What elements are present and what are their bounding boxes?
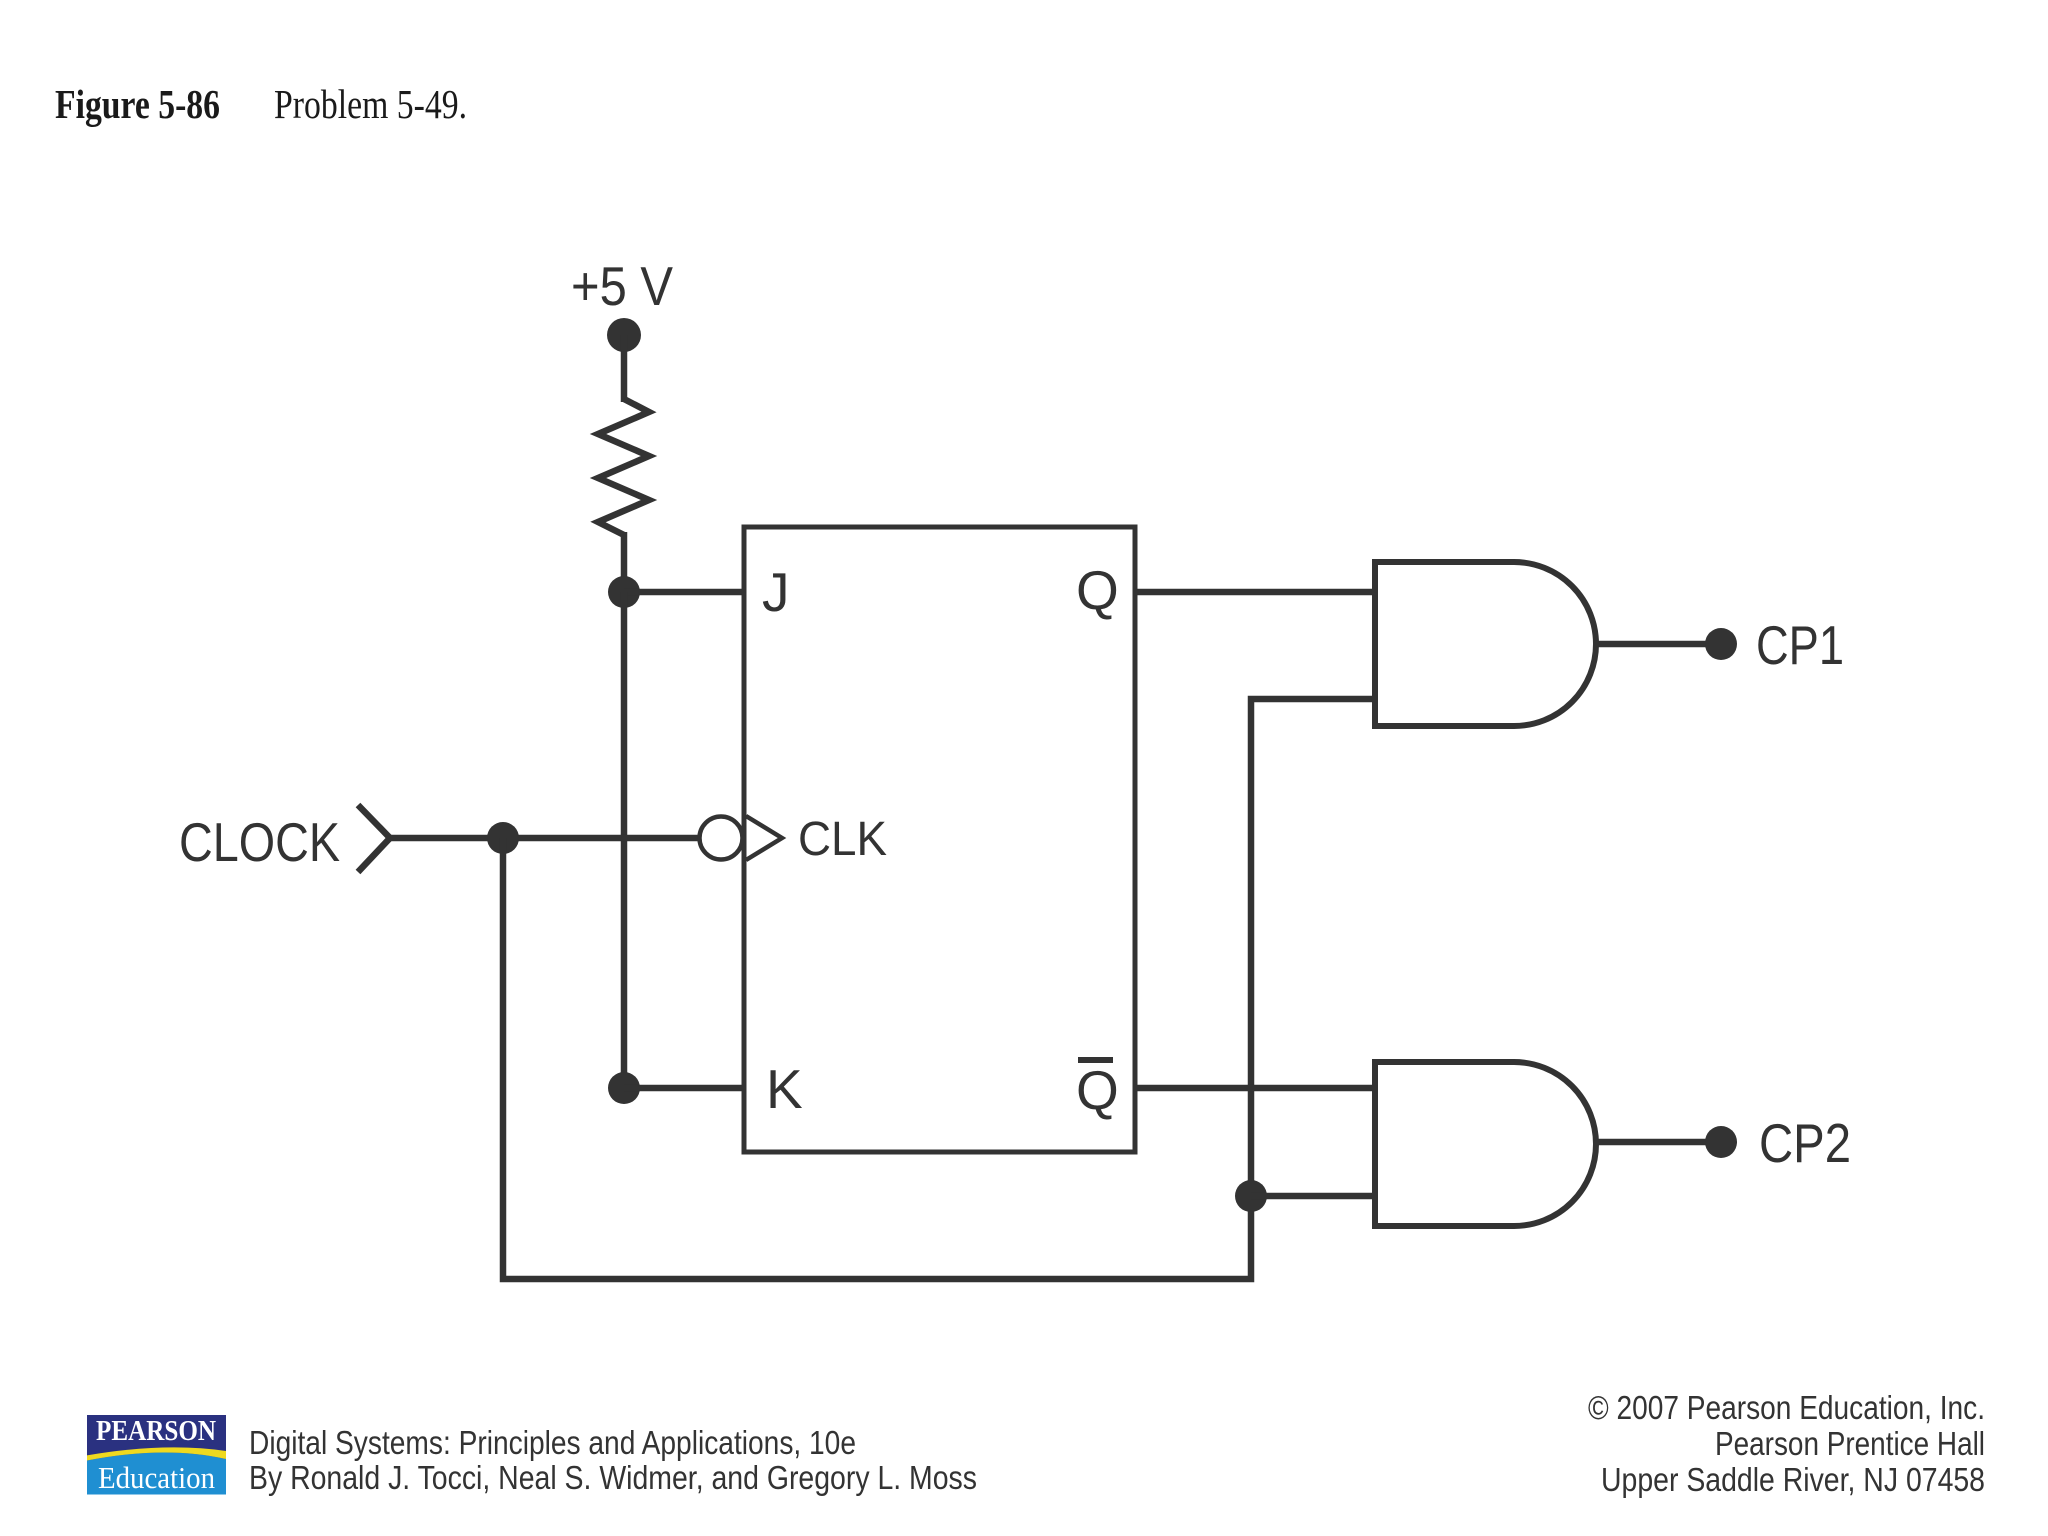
svg-text:© 2007 Pearson Education, Inc.: © 2007 Pearson Education, Inc.	[1588, 1389, 1985, 1426]
CLOCK source chevron	[358, 805, 390, 872]
wire CLOCK to CLK bubble	[390, 835, 700, 842]
svg-text:Figure 5-86: Figure 5-86	[55, 81, 220, 127]
node J junction dot	[608, 576, 640, 608]
wire Q to AND1	[1135, 589, 1375, 596]
svg-text:CLOCK: CLOCK	[179, 811, 340, 873]
wire node to K input	[624, 1085, 744, 1092]
svg-text:K: K	[766, 1058, 803, 1120]
pin CLK bubble	[700, 817, 743, 860]
svg-text:CLK: CLK	[798, 813, 887, 866]
svg-text:CP1: CP1	[1756, 614, 1844, 676]
wire node to J input	[624, 589, 744, 596]
wire AND1 output	[1596, 641, 1706, 648]
svg-text:+5 V: +5 V	[571, 255, 673, 317]
node +5 V terminal dot	[607, 318, 641, 352]
svg-text:Problem 5-49.: Problem 5-49.	[274, 81, 467, 127]
svg-text:Education: Education	[98, 1460, 215, 1495]
wire node J down to node K	[621, 592, 628, 1088]
wire CLOCK feedback to AND gates	[503, 699, 1375, 1279]
wire +5V to resistor	[621, 335, 628, 402]
wire junction to AND2 lower input	[1251, 1193, 1375, 1200]
node K junction dot	[608, 1072, 640, 1104]
svg-text:Q: Q	[1076, 559, 1119, 621]
svg-text:Digital Systems: Principles an: Digital Systems: Principles and Applicat…	[249, 1424, 856, 1461]
node AND2 input junction dot	[1235, 1180, 1267, 1212]
wire AND2 output	[1596, 1139, 1706, 1146]
node CP1 terminal dot	[1705, 628, 1737, 660]
svg-text:PEARSON: PEARSON	[96, 1415, 216, 1447]
flip-flop U1 body	[744, 527, 1135, 1152]
wire resistor to node J	[621, 532, 628, 592]
AND gate U2	[1375, 562, 1596, 726]
svg-text:J: J	[762, 561, 790, 623]
pin Q-bar overbar	[1078, 1057, 1113, 1063]
resistor R1 (pull-up)	[598, 399, 649, 535]
node CLOCK junction dot	[487, 822, 519, 854]
svg-text:Q: Q	[1076, 1059, 1119, 1121]
svg-text:By Ronald J. Tocci, Neal S. Wi: By Ronald J. Tocci, Neal S. Widmer, and …	[249, 1459, 977, 1496]
pin CLK edge triangle	[746, 816, 782, 860]
publisher logo	[87, 1415, 226, 1495]
svg-text:CP2: CP2	[1759, 1112, 1851, 1174]
node CP2 terminal dot	[1705, 1126, 1737, 1158]
AND gate U3	[1375, 1062, 1596, 1226]
svg-text:Pearson Prentice Hall: Pearson Prentice Hall	[1715, 1425, 1985, 1462]
wire Q-bar to AND2	[1135, 1085, 1375, 1092]
svg-text:Upper Saddle River, NJ 07458: Upper Saddle River, NJ 07458	[1601, 1461, 1985, 1498]
